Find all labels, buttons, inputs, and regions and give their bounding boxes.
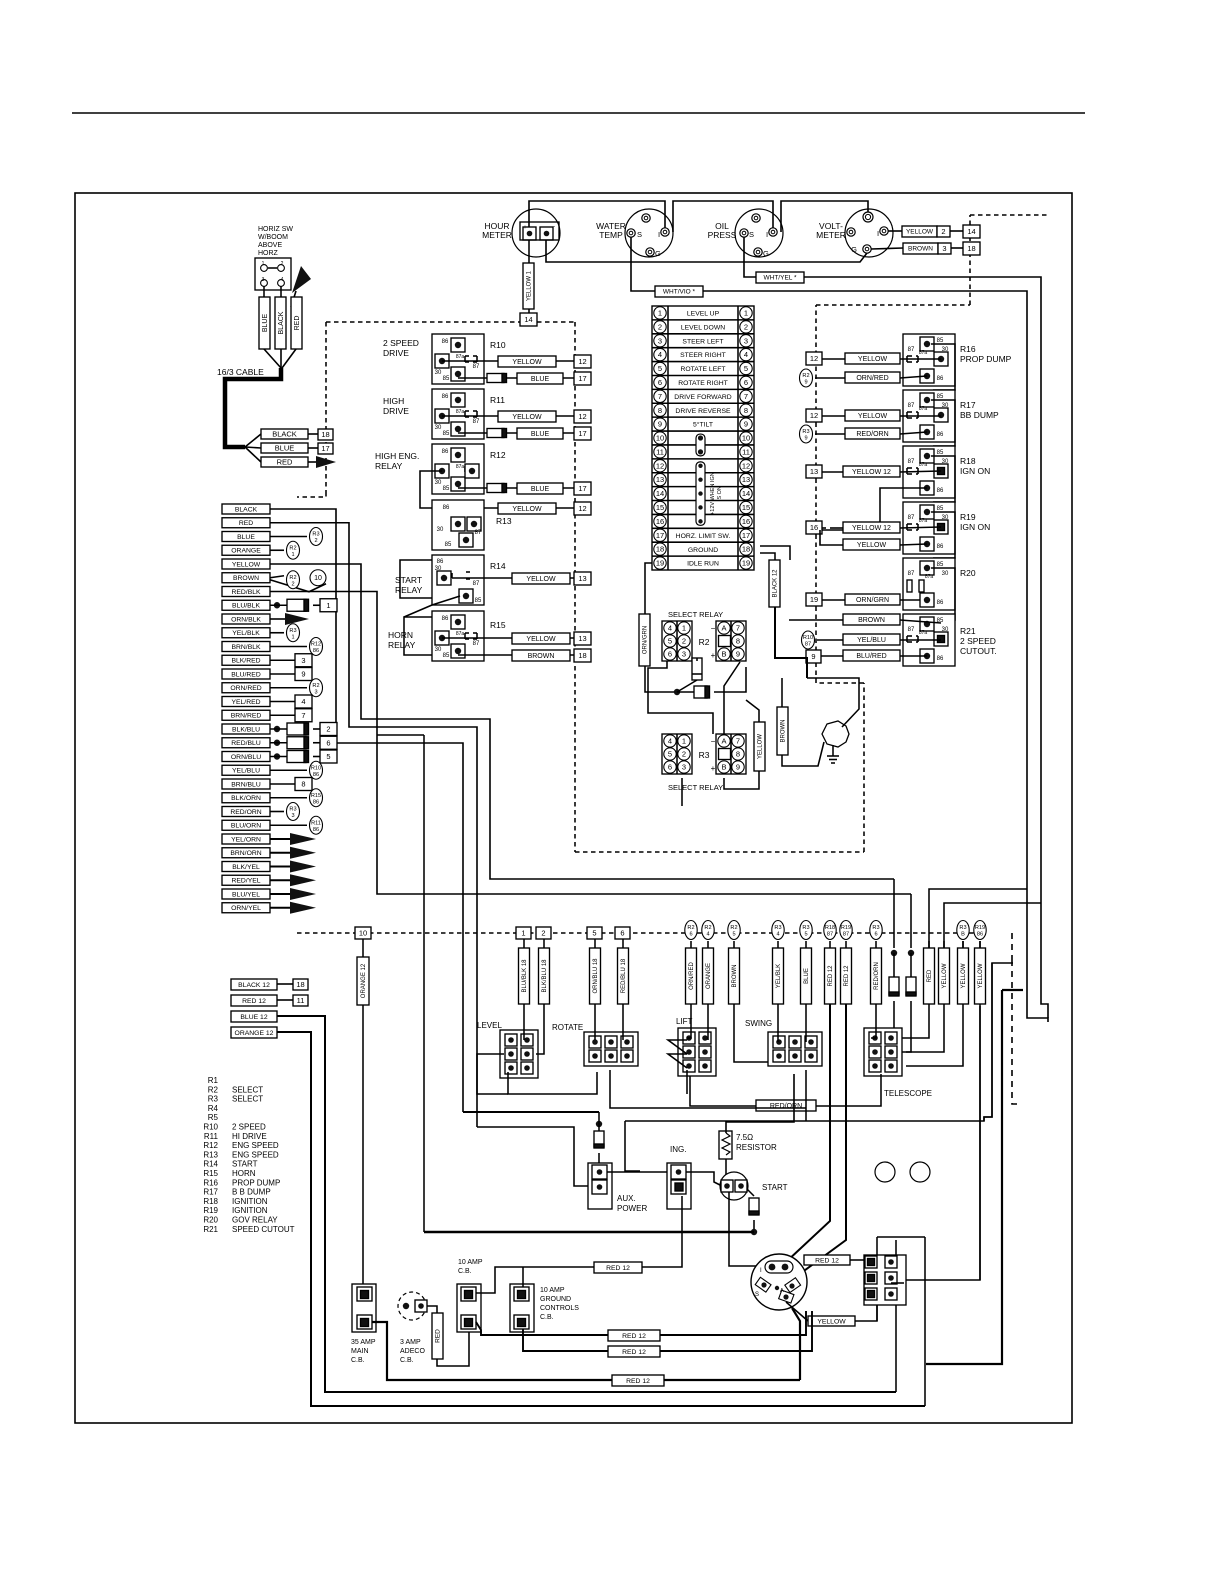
svg-text:RED: RED <box>239 520 253 527</box>
wire label RED/BLU <box>222 738 270 748</box>
svg-text:PRESS: PRESS <box>708 230 737 240</box>
svg-text:12: 12 <box>578 412 586 421</box>
svg-text:TEMP: TEMP <box>599 230 623 240</box>
svg-text:86: 86 <box>442 394 449 400</box>
svg-text:87: 87 <box>827 932 833 938</box>
svg-text:RELAY: RELAY <box>375 461 403 471</box>
vertical wire label ORANGE at x=708 <box>707 941 709 948</box>
svg-text:7: 7 <box>736 737 740 746</box>
svg-text:18: 18 <box>656 545 664 554</box>
red 12 label right of ignition <box>805 1259 807 1261</box>
svg-text:1: 1 <box>521 929 525 938</box>
svg-text:SELECT RELAY: SELECT RELAY <box>668 610 723 619</box>
svg-text:87a: 87a <box>456 464 465 470</box>
svg-text:4: 4 <box>658 350 662 359</box>
svg-text:ORN/BLU 18: ORN/BLU 18 <box>593 958 599 994</box>
aux power block <box>588 1163 612 1209</box>
svg-text:ENG SPEED: ENG SPEED <box>232 1150 279 1159</box>
svg-text:B B DUMP: B B DUMP <box>232 1188 271 1197</box>
svg-text:87: 87 <box>908 459 915 465</box>
svg-text:ROTATE RIGHT: ROTATE RIGHT <box>678 380 728 387</box>
svg-text:1: 1 <box>291 634 294 640</box>
svg-text:14: 14 <box>967 227 975 236</box>
svg-text:5: 5 <box>744 364 748 373</box>
svg-text:87a: 87a <box>919 462 928 468</box>
svg-text:BB DUMP: BB DUMP <box>960 410 999 420</box>
svg-text:SELECT RELAY: SELECT RELAY <box>668 783 723 792</box>
svg-text:YEL/ORN: YEL/ORN <box>231 836 261 843</box>
svg-text:R3: R3 <box>699 750 710 760</box>
svg-text:5: 5 <box>592 929 596 938</box>
svg-text:RED 12: RED 12 <box>626 1378 650 1385</box>
svg-text:R14: R14 <box>490 561 506 571</box>
svg-text:R3: R3 <box>959 925 966 931</box>
svg-text:3: 3 <box>262 277 265 283</box>
jumper bar pins 10-11 <box>696 434 705 456</box>
svg-text:BLUE: BLUE <box>237 534 255 541</box>
svg-text:30: 30 <box>942 571 949 577</box>
svg-text:R17: R17 <box>960 400 976 410</box>
wire switch pin4 down <box>280 286 282 297</box>
terminal 14 box under hour meter <box>520 313 537 326</box>
R15 brown wire to 18 <box>458 654 574 656</box>
central connector strip pins 1-19 <box>652 306 754 570</box>
wire switch pin3 down <box>263 286 265 297</box>
svg-text:BLUE: BLUE <box>531 431 550 438</box>
16/3 cable thick run <box>225 368 281 447</box>
svg-text:16/3 CABLE: 16/3 CABLE <box>217 367 264 377</box>
svg-text:R18: R18 <box>825 925 835 931</box>
wire label BLU/YEL <box>222 889 270 899</box>
svg-text:RED 12: RED 12 <box>242 998 266 1005</box>
red/blk wire long run <box>270 592 911 895</box>
svg-text:4: 4 <box>776 932 779 938</box>
svg-text:R19: R19 <box>841 925 851 931</box>
black 12 label to 18 <box>231 979 277 990</box>
blk/orn to R15-86 <box>270 797 307 799</box>
svg-text:87: 87 <box>908 571 915 577</box>
svg-text:3: 3 <box>658 336 662 345</box>
svg-text:2: 2 <box>658 322 662 331</box>
svg-text:RED/BLU 18: RED/BLU 18 <box>621 958 627 993</box>
svg-text:87: 87 <box>805 642 811 648</box>
junction dots and fuses right of swing <box>893 879 895 948</box>
svg-text:I: I <box>877 229 879 238</box>
svg-text:2: 2 <box>326 725 330 734</box>
svg-text:19: 19 <box>656 559 664 568</box>
svg-text:30: 30 <box>437 527 444 533</box>
wire label BLUE <box>222 532 270 542</box>
svg-text:AUX.: AUX. <box>617 1194 636 1203</box>
svg-text:12: 12 <box>656 461 664 470</box>
svg-text:87: 87 <box>473 581 480 587</box>
svg-text:19: 19 <box>810 595 818 604</box>
svg-text:STEER RIGHT: STEER RIGHT <box>680 352 726 359</box>
lift switch block <box>678 1028 716 1076</box>
ground controls bottom wire to ignition <box>523 1311 812 1351</box>
thick feed wire to start junction <box>424 1231 754 1233</box>
svg-text:6: 6 <box>744 378 748 387</box>
svg-text:85: 85 <box>443 376 450 382</box>
svg-text:I: I <box>766 230 768 239</box>
R16 wires yellow from 12 <box>806 352 822 365</box>
svg-text:DRIVE: DRIVE <box>383 348 409 358</box>
svg-text:R13: R13 <box>496 516 512 526</box>
svg-text:1: 1 <box>291 552 294 558</box>
svg-text:HORN: HORN <box>388 630 413 640</box>
svg-text:7: 7 <box>301 711 305 720</box>
vertical wire label YELLOW at x=963 <box>962 941 964 948</box>
svg-text:R21: R21 <box>203 1225 218 1234</box>
svg-text:5°TILT: 5°TILT <box>693 421 713 429</box>
YEL/ORN arrow <box>270 838 290 840</box>
svg-text:I: I <box>658 230 660 239</box>
svg-text:2 SPEED: 2 SPEED <box>383 338 419 348</box>
svg-text:11: 11 <box>742 447 750 456</box>
svg-text:9: 9 <box>744 420 748 429</box>
svg-text:YELLOW: YELLOW <box>817 1318 846 1325</box>
wire label YELLOW <box>222 559 270 569</box>
svg-text:86: 86 <box>313 799 319 805</box>
svg-text:2: 2 <box>541 929 545 938</box>
svg-text:YELLOW: YELLOW <box>758 734 764 759</box>
vertical wire label RED/ORN at x=876 <box>875 941 877 948</box>
svg-text:12: 12 <box>578 504 586 513</box>
red wire vertical label <box>291 297 302 349</box>
wire label BLACK <box>222 504 270 514</box>
svg-text:8: 8 <box>658 406 662 415</box>
R11 yellow wire to 12 <box>442 415 574 417</box>
R12 diode and blue wire to 17 <box>458 487 574 489</box>
svg-text:METER: METER <box>482 230 512 240</box>
svg-text:R3: R3 <box>312 532 319 538</box>
black wire vertical label <box>275 297 286 349</box>
svg-text:B: B <box>721 650 726 659</box>
svg-text:85: 85 <box>937 338 944 344</box>
svg-text:BRN/BLK: BRN/BLK <box>231 644 261 651</box>
svg-text:YELLOW 12: YELLOW 12 <box>852 525 891 532</box>
svg-text:BLK/BLU 18: BLK/BLU 18 <box>542 959 548 993</box>
red vertical label below adeco <box>427 1306 437 1313</box>
svg-text:IDLE RUN: IDLE RUN <box>687 561 719 568</box>
wire loop select relays <box>648 661 713 734</box>
svg-text:BLACK: BLACK <box>278 311 285 334</box>
svg-text:3: 3 <box>291 813 294 819</box>
svg-text:IS ON: IS ON <box>717 486 723 501</box>
svg-text:R2: R2 <box>704 925 711 931</box>
svg-text:RED: RED <box>435 1329 442 1343</box>
svg-text:YEL/RED: YEL/RED <box>231 699 260 706</box>
10 amp ground controls cb <box>510 1284 534 1332</box>
gauge daisy chain wires <box>529 201 665 228</box>
svg-text:86: 86 <box>977 932 983 938</box>
svg-text:BRN/BLU: BRN/BLU <box>231 781 261 788</box>
svg-text:GROUND: GROUND <box>540 1296 571 1303</box>
svg-text:BROWN: BROWN <box>528 653 555 660</box>
svg-text:YELLOW: YELLOW <box>512 359 542 366</box>
wire label BLK/YEL <box>222 862 270 872</box>
blk/blu with diode to 2 <box>274 726 280 732</box>
schematic border frame <box>75 193 1072 1423</box>
blue 12 label wire down <box>231 1011 277 1022</box>
svg-text:ORN/RED: ORN/RED <box>689 962 695 990</box>
vertical wire label BLU/BLK 18 at x=524 <box>523 939 525 948</box>
lift crossover wires <box>668 1040 687 1054</box>
svg-text:R21: R21 <box>960 626 976 636</box>
svg-text:S: S <box>755 1292 759 1298</box>
wire label YEL/RED <box>222 697 270 707</box>
wire label BLK/BLU <box>222 724 270 734</box>
svg-text:RED: RED <box>927 969 933 982</box>
svg-text:G: G <box>655 249 661 258</box>
svg-text:R19: R19 <box>960 512 976 522</box>
svg-text:85: 85 <box>443 486 450 492</box>
svg-text:R10: R10 <box>311 765 321 771</box>
svg-text:BLUE 12: BLUE 12 <box>240 1014 267 1021</box>
svg-text:19: 19 <box>742 559 750 568</box>
svg-text:9: 9 <box>658 420 662 429</box>
svg-text:11: 11 <box>297 996 305 1005</box>
svg-text:RELAY: RELAY <box>395 585 423 595</box>
hour meter minus to gauge grounds wire <box>546 240 867 262</box>
svg-text:87: 87 <box>475 530 482 536</box>
svg-text:RED 12: RED 12 <box>622 1349 646 1356</box>
relay R13 eng speed <box>432 500 484 550</box>
svg-text:86: 86 <box>313 827 319 833</box>
orange 12 vertical label <box>357 957 369 1005</box>
level switch block <box>500 1030 538 1078</box>
R20 85 to R21 link <box>931 568 955 620</box>
svg-text:3: 3 <box>301 656 305 665</box>
svg-text:BLACK 12: BLACK 12 <box>773 569 779 598</box>
svg-text:1: 1 <box>682 737 686 746</box>
svg-text:BLUE: BLUE <box>275 444 295 453</box>
svg-text:YELLOW 12: YELLOW 12 <box>852 469 891 476</box>
svg-text:12: 12 <box>810 354 818 363</box>
svg-text:ING.: ING. <box>670 1145 686 1154</box>
orn/blu with diode to 5 <box>274 753 280 759</box>
blk/red to 3 <box>270 659 295 661</box>
svg-text:R2: R2 <box>208 1085 219 1094</box>
black conductor label to 18 <box>261 429 308 439</box>
svg-text:14: 14 <box>524 315 532 324</box>
svg-text:9: 9 <box>811 652 815 661</box>
svg-text:4: 4 <box>668 624 672 633</box>
svg-text:ORANGE: ORANGE <box>706 963 712 989</box>
svg-text:ENG SPEED: ENG SPEED <box>232 1141 279 1150</box>
svg-text:R5: R5 <box>208 1113 219 1122</box>
svg-text:CONTROLS: CONTROLS <box>540 1305 579 1312</box>
wire label ORN/YEL <box>222 903 270 913</box>
vertical wire label RED/BLU 18 at x=623 <box>622 939 624 948</box>
svg-text:6: 6 <box>689 932 692 938</box>
svg-text:R4: R4 <box>208 1104 219 1113</box>
svg-text:9: 9 <box>301 670 305 679</box>
svg-text:G: G <box>763 249 769 258</box>
svg-text:18: 18 <box>742 545 750 554</box>
svg-text:12: 12 <box>742 461 750 470</box>
svg-text:ROTATE LEFT: ROTATE LEFT <box>680 366 725 373</box>
yel/red to 4 <box>270 701 295 703</box>
svg-text:R15: R15 <box>203 1169 218 1178</box>
svg-text:R3: R3 <box>208 1095 219 1104</box>
svg-text:7: 7 <box>658 392 662 401</box>
wht/yel wire and label <box>744 237 756 277</box>
blue wire vertical label <box>259 297 270 349</box>
svg-text:TELESCOPE: TELESCOPE <box>884 1089 932 1098</box>
wire label BRN/RED <box>222 710 270 720</box>
svg-text:85: 85 <box>475 598 482 604</box>
svg-text:10: 10 <box>742 434 750 443</box>
svg-text:R13: R13 <box>203 1150 218 1159</box>
brn/red to 7 <box>270 714 295 716</box>
junction dot and diode wire <box>674 689 680 695</box>
horiz limit switch box <box>255 258 291 290</box>
R20 orn/grn wire from 19 <box>806 593 822 606</box>
svg-text:RED 12: RED 12 <box>828 965 834 987</box>
svg-text:HI DRIVE: HI DRIVE <box>232 1132 267 1141</box>
relay R16 prop dump <box>903 334 955 386</box>
svg-text:GROUND: GROUND <box>688 547 718 554</box>
vertical wire label BLUE at x=806 <box>805 941 807 948</box>
svg-text:13: 13 <box>810 467 818 476</box>
svg-text:HIGH: HIGH <box>383 396 404 406</box>
svg-text:BLACK 12: BLACK 12 <box>238 982 270 989</box>
telescope switch block <box>864 1028 902 1076</box>
connector right wires to dashed region <box>760 546 790 560</box>
svg-text:3: 3 <box>744 336 748 345</box>
svg-text:YEL/BLK: YEL/BLK <box>232 630 260 637</box>
wire label RED/ORN <box>222 807 270 817</box>
blue wire to R3-2 <box>270 536 307 538</box>
svg-text:R2: R2 <box>687 925 694 931</box>
svg-text:17: 17 <box>321 444 329 453</box>
R14 yellow wire to 13 <box>452 577 574 579</box>
svg-text:14: 14 <box>742 489 750 498</box>
svg-text:R11: R11 <box>490 395 505 405</box>
svg-text:87a: 87a <box>925 574 934 580</box>
svg-text:R11: R11 <box>311 820 321 826</box>
svg-text:B: B <box>721 763 726 772</box>
R17 85 to R18 link <box>931 400 955 446</box>
svg-text:86: 86 <box>443 505 450 511</box>
yellow wires into telescope <box>906 1004 944 1052</box>
svg-text:LEVEL UP: LEVEL UP <box>687 311 720 318</box>
R19 yellow 86 wire <box>820 530 843 545</box>
svg-text:85: 85 <box>937 394 944 400</box>
yel/blu to R10-86 <box>270 769 307 771</box>
svg-text:86: 86 <box>937 488 944 494</box>
select relay R3 <box>662 734 692 774</box>
svg-text:R3: R3 <box>872 925 879 931</box>
svg-text:13: 13 <box>742 475 750 484</box>
svg-text:R3: R3 <box>774 925 781 931</box>
svg-text:BLUE: BLUE <box>531 486 550 493</box>
R18 85 to R19 link <box>931 456 955 502</box>
svg-text:5: 5 <box>732 932 735 938</box>
R12 30 wire loop to R13 86 <box>420 471 442 508</box>
black wire long run to aux power <box>270 509 463 1112</box>
yellow label wire from relay block <box>855 1305 877 1321</box>
relay R17 bb dump <box>903 390 955 442</box>
svg-text:R1: R1 <box>208 1076 219 1085</box>
dashed right vertical <box>1012 960 1022 1104</box>
svg-text:2: 2 <box>682 750 686 759</box>
svg-text:3 AMP: 3 AMP <box>400 1339 421 1346</box>
wire up to ignition from bottom feed <box>792 1308 800 1380</box>
svg-text:A: A <box>721 737 726 746</box>
svg-text:35 AMP: 35 AMP <box>351 1339 376 1346</box>
svg-text:STEER LEFT: STEER LEFT <box>682 338 723 345</box>
svg-text:CUTOUT.: CUTOUT. <box>960 646 997 656</box>
svg-text:2: 2 <box>291 581 294 587</box>
svg-text:86: 86 <box>442 339 449 345</box>
svg-text:LEVEL: LEVEL <box>477 1021 502 1030</box>
vertical wire label YEL/BLK at x=778 <box>777 941 779 948</box>
right long verticals lower hooks <box>984 963 992 1121</box>
arrow up-right from switch <box>292 266 311 293</box>
yel/blk to R3-1 <box>270 632 284 634</box>
svg-text:SPEED CUTOUT: SPEED CUTOUT <box>232 1225 295 1234</box>
svg-text:−: − <box>711 737 716 746</box>
svg-text:G: G <box>851 245 857 254</box>
svg-text:2: 2 <box>314 538 317 544</box>
R13 yellow wire to 12 <box>484 507 574 509</box>
svg-text:86: 86 <box>442 616 449 622</box>
svg-text:YEL/BLU: YEL/BLU <box>857 637 886 644</box>
red wire long run <box>270 523 477 1127</box>
svg-text:YELLOW: YELLOW <box>906 229 934 236</box>
svg-text:YELLOW: YELLOW <box>961 963 967 988</box>
wire label YEL/BLU <box>222 765 270 775</box>
wire label ORANGE <box>222 545 270 555</box>
ground controls top wire <box>522 1267 524 1287</box>
svg-text:ABOVE: ABOVE <box>258 242 282 249</box>
svg-text:6: 6 <box>326 738 330 747</box>
svg-text:3: 3 <box>682 650 686 659</box>
aux to ing wire <box>607 1171 672 1173</box>
svg-text:9: 9 <box>804 436 807 442</box>
svg-text:6: 6 <box>620 929 624 938</box>
ing to start wire <box>686 1172 722 1186</box>
relay R20 gov relay <box>903 558 955 610</box>
svg-text:BLUE: BLUE <box>262 314 269 333</box>
svg-text:RED/ORN: RED/ORN <box>874 962 880 990</box>
R21 brown 85 wire <box>789 619 843 621</box>
svg-text:LIFT: LIFT <box>676 1017 693 1026</box>
blu/orn to R11-86 <box>270 824 307 826</box>
svg-text:15: 15 <box>742 503 750 512</box>
ing block <box>667 1163 691 1209</box>
svg-text:IGNITION: IGNITION <box>232 1206 268 1215</box>
ignition switch circle <box>751 1254 807 1310</box>
cable fan to black/blue/red labels <box>245 434 261 447</box>
svg-text:YELLOW: YELLOW <box>512 506 542 513</box>
red/orn horizontal label under switches <box>690 1076 756 1106</box>
svg-text:10: 10 <box>359 929 367 938</box>
R21 blu/red wire from 9 <box>806 650 821 663</box>
rotate switch block <box>584 1032 638 1066</box>
svg-text:86: 86 <box>937 600 944 606</box>
svg-text:+: + <box>711 651 716 660</box>
svg-text:R2: R2 <box>312 683 319 689</box>
svg-text:BLUE: BLUE <box>804 968 810 984</box>
svg-text:POWER: POWER <box>617 1204 647 1213</box>
terminal boxes above level/rotate switches <box>516 927 531 939</box>
wire label YEL/ORN <box>222 834 270 844</box>
svg-text:YELLOW: YELLOW <box>858 413 888 420</box>
svg-text:RED 12: RED 12 <box>815 1257 839 1264</box>
